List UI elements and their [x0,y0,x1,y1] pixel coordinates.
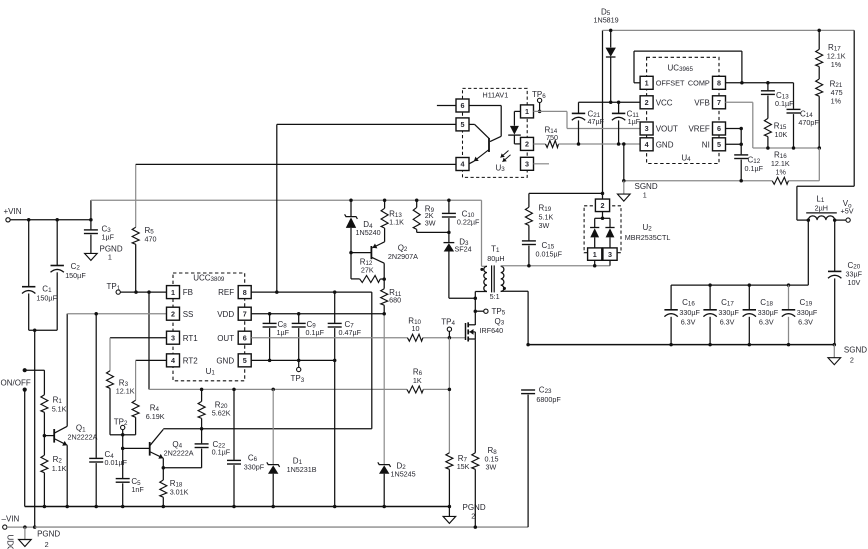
svg-text:+VIN: +VIN [4,207,22,216]
transistor Q2 [351,242,418,289]
svg-text:FB: FB [183,288,193,297]
IC U1 UCC3809 dashed box [173,273,245,381]
svg-text:6.3V: 6.3V [720,317,735,326]
svg-text:7: 7 [243,309,247,318]
test point TP2 [114,417,128,478]
svg-text:RT1: RT1 [183,334,199,343]
svg-text:4: 4 [461,160,465,169]
capacitor C5 [116,477,145,506]
wire +VIN rail [91,198,482,266]
svg-text:VOUT: VOUT [656,125,678,134]
svg-text:5: 5 [717,140,721,149]
diode D5 [594,7,619,102]
connector ON/OFF [1,368,45,506]
svg-text:1N5245: 1N5245 [391,470,416,479]
U3 light arrows [501,151,511,162]
svg-text:1µF: 1µF [628,117,641,126]
svg-text:OFFSET: OFFSET [656,79,685,88]
svg-text:SS: SS [183,310,194,319]
resistor R8 [472,339,499,527]
svg-text:1µF: 1µF [102,233,115,242]
svg-text:12.1K: 12.1K [116,387,135,396]
svg-text:1µF: 1µF [277,328,290,337]
svg-text:6800pF: 6800pF [536,395,561,404]
capacitor C22 [195,429,231,468]
svg-text:150µF: 150µF [36,294,57,303]
wire U1 GND net [251,359,336,507]
svg-text:NI: NI [702,140,710,149]
svg-text:GND: GND [656,140,674,149]
capacitor C17 [703,285,739,345]
wire FB to gate-clamp bus [149,292,449,391]
ground PGND 2 left [19,527,61,549]
inductor L1 [806,195,837,222]
svg-text:0.015µF: 0.015µF [536,250,563,259]
U4 pin 7 VFB [694,96,725,109]
test point TP4 [441,318,455,338]
capacitor C23 [521,386,561,405]
U4 pin 1 OFFSET [640,76,685,89]
transistor Q4 [123,429,194,467]
test point TP6 [532,90,546,113]
svg-text:1: 1 [525,107,529,116]
resistor R13 [381,200,404,242]
svg-text:VDD: VDD [217,310,234,319]
U1 pin 4 RT2 [167,354,199,367]
resistor R18 [160,468,189,507]
svg-text:1%: 1% [831,60,842,69]
svg-text:3: 3 [645,124,649,133]
svg-text:VREF: VREF [688,125,709,134]
svg-text:330µF: 330µF [679,308,700,317]
terminal Vo +5V [835,199,854,222]
U4 pin 4 GND [640,138,674,151]
capacitor C15 [522,241,563,266]
svg-text:330µF: 330µF [797,308,818,317]
svg-text:80µH: 80µH [487,254,504,263]
U3 pin 1 [521,105,534,118]
svg-text:0.1µF: 0.1µF [775,99,794,108]
svg-text:2: 2 [645,98,649,107]
svg-text:15K: 15K [457,462,470,471]
U4 pin 2 VCC [640,96,673,109]
ground PGND 2 right [443,503,486,523]
U1 pin 1 FB [167,286,193,299]
svg-text:330pF: 330pF [244,462,265,471]
svg-text:7: 7 [717,98,721,107]
U1 pin 5 GND [216,354,251,367]
svg-text:10: 10 [412,324,420,333]
U4 pin 6 VREF [688,122,725,135]
capacitor C4 [89,314,127,507]
svg-text:1nF: 1nF [131,485,144,494]
resistor R16 [622,150,819,184]
wire TP4 vertical [448,338,452,453]
svg-text:1K: 1K [413,376,422,385]
svg-text:VCC: VCC [656,98,673,107]
test point TP3 [291,360,305,383]
svg-text:1: 1 [108,253,112,262]
capacitor C19 [782,285,818,345]
svg-text:5: 5 [461,120,465,129]
IC U4 UC3965 dashed box [647,57,719,163]
svg-text:RT2: RT2 [183,357,199,366]
svg-text:1: 1 [171,288,175,297]
capacitor C2 [51,220,87,330]
U1 pin 7 VDD [217,307,251,320]
svg-text:1: 1 [643,191,647,200]
svg-text:6.3V: 6.3V [798,317,813,326]
svg-text:27K: 27K [361,265,374,274]
terminal +VIN [4,207,91,222]
U1 pin 2 SS [167,307,194,320]
svg-text:COMP: COMP [688,79,710,88]
wire -VIN bus [35,395,528,529]
wire C1-C2 return to -VIN [29,328,58,527]
svg-text:470: 470 [145,234,157,243]
svg-text:0.1µF: 0.1µF [745,164,764,173]
svg-text:IRF640: IRF640 [480,326,504,335]
svg-text:2: 2 [471,512,475,521]
svg-text:6.3V: 6.3V [681,317,696,326]
resistor R7 [446,453,470,507]
svg-text:47µF: 47µF [588,117,605,126]
svg-text:2N2222A: 2N2222A [164,448,194,457]
svg-text:3: 3 [608,250,612,259]
resistor R3 [107,338,167,435]
wire +VIN node [27,218,93,222]
zener diode D1 [267,389,317,506]
svg-text:1%: 1% [831,97,842,106]
svg-text:5:1: 5:1 [490,292,500,301]
svg-text:10K: 10K [775,130,788,139]
capacitor C10 [442,200,480,234]
capacitor C12 [734,155,763,181]
ground PGND 1 [85,244,123,261]
wire VOUT to opto [534,111,641,128]
svg-text:330µF: 330µF [758,308,779,317]
svg-text:1.1K: 1.1K [52,464,67,473]
wire VFB net [725,102,821,181]
svg-text:470pF: 470pF [798,118,819,127]
svg-text:150µF: 150µF [65,271,86,280]
wire COMP net [725,81,793,109]
svg-text:REF: REF [218,288,234,297]
svg-text:680: 680 [389,295,401,304]
svg-text:GND: GND [216,357,234,366]
U3 pin 4 [456,158,469,171]
capacitor C3 [84,220,115,253]
capacitor C9 [292,314,325,361]
svg-text:6: 6 [717,124,721,133]
resistor R10 [407,316,423,341]
svg-text:3W: 3W [486,463,497,472]
wire top rail [603,29,855,220]
wire OFFSET to COMP loop [634,51,742,83]
transformer T1 [475,245,610,345]
wire REF ramp line [163,292,371,430]
svg-text:0.1µF: 0.1µF [306,328,325,337]
U1 pin 6 OUT [217,331,251,344]
svg-text:2: 2 [601,201,605,210]
svg-text:5: 5 [243,356,247,365]
svg-text:6.19K: 6.19K [146,412,165,421]
zener diode D2 [378,314,416,507]
MOSFET Q3 IRF640 [466,317,505,342]
U1 pin 8 REF [218,286,251,299]
svg-text:6: 6 [461,101,465,110]
resistor R21 [816,79,843,148]
optocoupler U3 H11AV1 dashed box [463,88,528,177]
capacitor C11 [612,102,641,144]
capacitor C1 [22,220,58,330]
svg-text:0.01µF: 0.01µF [105,458,128,467]
svg-text:1: 1 [593,250,597,259]
resistor R4 [123,360,167,434]
transistor Q1 [43,314,98,507]
capacitor C7 [328,292,362,360]
svg-text:6: 6 [243,333,247,342]
svg-text:3: 3 [171,333,175,342]
capacitor C21 [572,101,641,144]
U4 pin 8 COMP [688,76,726,89]
svg-text:ON/OFF: ON/OFF [1,378,31,387]
resistor R6 [407,367,423,393]
svg-text:330µF: 330µF [718,308,739,317]
resistor R17 [816,30,846,79]
U3 pin 2 [521,137,534,150]
svg-text:3.01K: 3.01K [170,488,189,497]
svg-text:2: 2 [45,540,49,549]
svg-text:5.1K: 5.1K [52,405,67,414]
svg-text:10V: 10V [848,278,861,287]
capacitor C13 [761,83,794,119]
svg-text:1N5240: 1N5240 [356,228,381,237]
wire SS net [67,312,166,316]
svg-text:2: 2 [171,309,175,318]
svg-text:0.1µF: 0.1µF [212,447,231,456]
svg-text:5.62K: 5.62K [212,408,231,417]
svg-text:2µH: 2µH [815,203,828,212]
U3 phototransistor [469,106,501,164]
svg-text:OUT: OUT [217,334,234,343]
wire OUT gate drive [251,336,465,340]
ground SGND 2 [828,345,867,365]
wire PGND bus [25,505,451,509]
capacitor C20 [828,220,863,345]
capacitor C16 [664,285,700,345]
svg-text:8: 8 [243,288,247,297]
U3 pin 6 [437,99,469,112]
U3 pin 5 [456,118,469,131]
wire opto pin5 to REF [277,124,456,292]
wire L1 input to bulk caps [671,220,808,287]
svg-text:–VIN: –VIN [2,514,20,523]
wire rectified node vertical [601,30,605,199]
svg-text:VFB: VFB [694,98,710,107]
resistor R9 [413,200,449,232]
svg-text:SGND: SGND [844,345,867,354]
test point TP5 [474,307,506,317]
wire VDD net [251,312,386,316]
svg-text:2N2222A: 2N2222A [68,432,98,441]
svg-text:3: 3 [525,160,529,169]
capacitor C18 [743,285,779,345]
U3 LED [508,111,521,143]
diode D3 [444,232,478,300]
wire REF net [251,290,372,294]
svg-text:3W: 3W [539,221,550,230]
svg-text:6.3V: 6.3V [759,317,774,326]
capacitor C6 [227,389,265,506]
wire opto pin4 to R5 [136,163,456,165]
rectifier U2 MBR2535CTL [584,199,670,266]
svg-text:8: 8 [717,79,721,88]
U1 pin 3 RT1 [167,331,199,344]
zener diode D4 [345,200,381,279]
svg-text:1N5819: 1N5819 [594,16,619,25]
resistor R15 [764,118,787,148]
svg-text:1N5231B: 1N5231B [287,465,317,474]
svg-text:2: 2 [850,356,854,365]
resistor R1 [41,395,67,455]
capacitor C8 [263,314,290,361]
svg-text:0.47µF: 0.47µF [339,328,362,337]
wire Q4 emitter node [162,466,202,470]
svg-text:2N2907A: 2N2907A [388,252,418,261]
svg-text:750: 750 [546,133,558,142]
svg-text:1: 1 [645,79,649,88]
svg-text:+5V: +5V [841,206,854,215]
resistor R11 [381,288,402,314]
svg-text:PGND: PGND [37,529,60,538]
wire VREF NI net [725,127,743,155]
wire SGND 2 bus [526,343,836,347]
U3 pin 3 [521,157,550,170]
resistor R5 [132,164,156,292]
svg-text:2: 2 [525,140,529,149]
resistor R20 [198,389,231,428]
svg-text:SF24: SF24 [455,245,472,254]
svg-text:4: 4 [171,356,175,365]
resistor R19 [525,193,602,240]
svg-text:H11AV1: H11AV1 [483,91,509,100]
svg-text:0.22µF: 0.22µF [457,217,480,226]
U4 pin 5 NI [702,138,726,151]
svg-text:UDG-98105: UDG-98105 [6,535,15,549]
svg-text:3W: 3W [425,219,436,228]
svg-text:5.1K: 5.1K [539,212,554,221]
capacitor C14 [787,109,820,148]
svg-text:1%: 1% [776,168,787,177]
resistor R2 [41,455,67,507]
svg-text:1.1K: 1.1K [389,218,404,227]
svg-text:4: 4 [645,140,649,149]
test point TP1 [107,282,167,294]
svg-text:MBR2535CTL: MBR2535CTL [625,233,671,242]
resistor R14 [534,126,641,148]
ground SGND 1 [618,144,658,201]
terminal -VIN [2,514,37,529]
resistor R12 [351,257,384,282]
U4 pin 3 VOUT [640,122,678,135]
